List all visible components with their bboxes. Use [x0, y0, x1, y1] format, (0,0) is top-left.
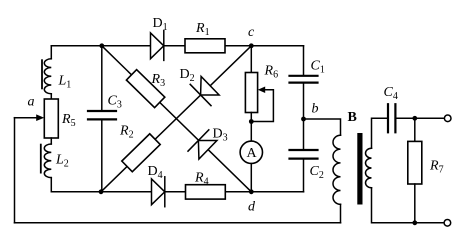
- transformer core: [357, 133, 362, 205]
- wire: wiper arrow line from left rail to R5: [15, 117, 38, 119]
- svg-text:R6: R6: [264, 64, 279, 81]
- resistor R2: [122, 134, 160, 172]
- capacitor C3: [88, 111, 116, 119]
- wire: R6 wiper to lower node: [251, 90, 273, 122]
- svg-text:C4: C4: [384, 85, 398, 102]
- resistor R7: [408, 141, 422, 184]
- svg-text:A: A: [247, 146, 258, 161]
- node bottom-right: [412, 220, 417, 225]
- wire: top rail from L1 corner to right rail corner: [51, 45, 303, 47]
- svg-text:R4: R4: [194, 171, 209, 188]
- wire: left outer rail down: [14, 118, 16, 223]
- svg-text:C3: C3: [108, 94, 122, 111]
- terminal top: [444, 115, 451, 122]
- wire: L2 bottom to bridge bottom-left node: [51, 178, 101, 192]
- svg-text:a: a: [28, 95, 35, 110]
- wire: right rail top segment down to C1: [303, 46, 305, 75]
- core bar of L1: [41, 60, 43, 88]
- wire: L1 to R5: [50, 94, 52, 99]
- wire: R5 to L2: [50, 138, 52, 144]
- svg-text:D4: D4: [148, 164, 163, 181]
- svg-text:C2: C2: [310, 164, 324, 181]
- node d: [249, 189, 254, 194]
- node at C4 output: [412, 116, 417, 121]
- wire: right rail bottom segment to bottom rail: [303, 160, 305, 192]
- transformer primary winding: [333, 135, 341, 204]
- node b: [301, 117, 306, 122]
- wire: C3 branch lower: [101, 121, 103, 192]
- transformer secondary winding: [365, 148, 371, 188]
- svg-text:R2: R2: [119, 124, 134, 141]
- node top-left junction: [99, 43, 104, 48]
- wire: junction to R7: [414, 118, 416, 141]
- core bar of L2: [40, 145, 42, 173]
- arrowhead at R5 wiper: [36, 114, 44, 121]
- svg-text:b: b: [312, 102, 319, 117]
- svg-text:R5: R5: [61, 112, 76, 129]
- resistor R4: [186, 185, 226, 199]
- diode D4: [152, 177, 165, 207]
- wire: node to ammeter: [250, 122, 252, 142]
- svg-text:R1: R1: [195, 21, 210, 38]
- svg-text:L2: L2: [55, 153, 69, 170]
- wire: C4 to top terminal: [397, 117, 445, 119]
- wire: c to R6: [250, 46, 252, 73]
- wire: bridge diagonal B (bottom-left to c): [101, 46, 251, 192]
- wire: R6 bottom to node: [250, 113, 252, 122]
- capacitor C4: [388, 104, 395, 132]
- wire: secondary bottom rail: [372, 188, 445, 223]
- svg-text:D1: D1: [153, 16, 168, 33]
- svg-text:R3: R3: [151, 72, 166, 89]
- diode D3: [188, 130, 218, 161]
- node bottom-left junction: [99, 189, 104, 194]
- svg-text:D3: D3: [213, 127, 228, 144]
- wire: C3 branch upper: [101, 46, 103, 110]
- svg-text:L1: L1: [58, 74, 72, 91]
- wire: node b to transformer primary top: [304, 119, 341, 135]
- wire: R7 to bottom rail: [414, 184, 416, 223]
- resistor R6: [245, 73, 257, 113]
- svg-text:D2: D2: [180, 67, 195, 84]
- inductor L1: [44, 59, 51, 94]
- wire: long bottom rail to transformer primary: [15, 222, 341, 224]
- wire: bridge bottom rail: [101, 191, 304, 193]
- svg-text:R7: R7: [429, 159, 444, 176]
- resistor R1: [185, 39, 225, 53]
- wire: right rail between C1 and C2 through node b: [303, 84, 305, 149]
- inductor L2: [44, 144, 51, 178]
- svg-text:C1: C1: [311, 59, 325, 76]
- ammeter A: [240, 141, 262, 163]
- wire: bridge diagonal A (top-left to d): [102, 46, 252, 192]
- wire: primary bottom to outer bottom rail: [340, 204, 342, 223]
- resistor R3: [126, 70, 164, 108]
- svg-text:d: d: [248, 200, 256, 215]
- wire: ammeter to d: [250, 164, 252, 192]
- wiper arrow of R6: [258, 87, 265, 94]
- diode D2: [190, 75, 220, 106]
- wire: L1 top connection: [50, 46, 52, 59]
- wire: secondary top to C4: [372, 118, 388, 148]
- capacitor C2: [290, 150, 318, 159]
- svg-text:B: B: [348, 110, 357, 125]
- diode D1: [151, 31, 164, 61]
- capacitor C1: [290, 76, 318, 83]
- node c: [249, 43, 254, 48]
- node below R6: [249, 119, 254, 124]
- svg-text:c: c: [248, 25, 255, 40]
- terminal bottom: [444, 220, 451, 227]
- resistor R5: [44, 99, 58, 138]
